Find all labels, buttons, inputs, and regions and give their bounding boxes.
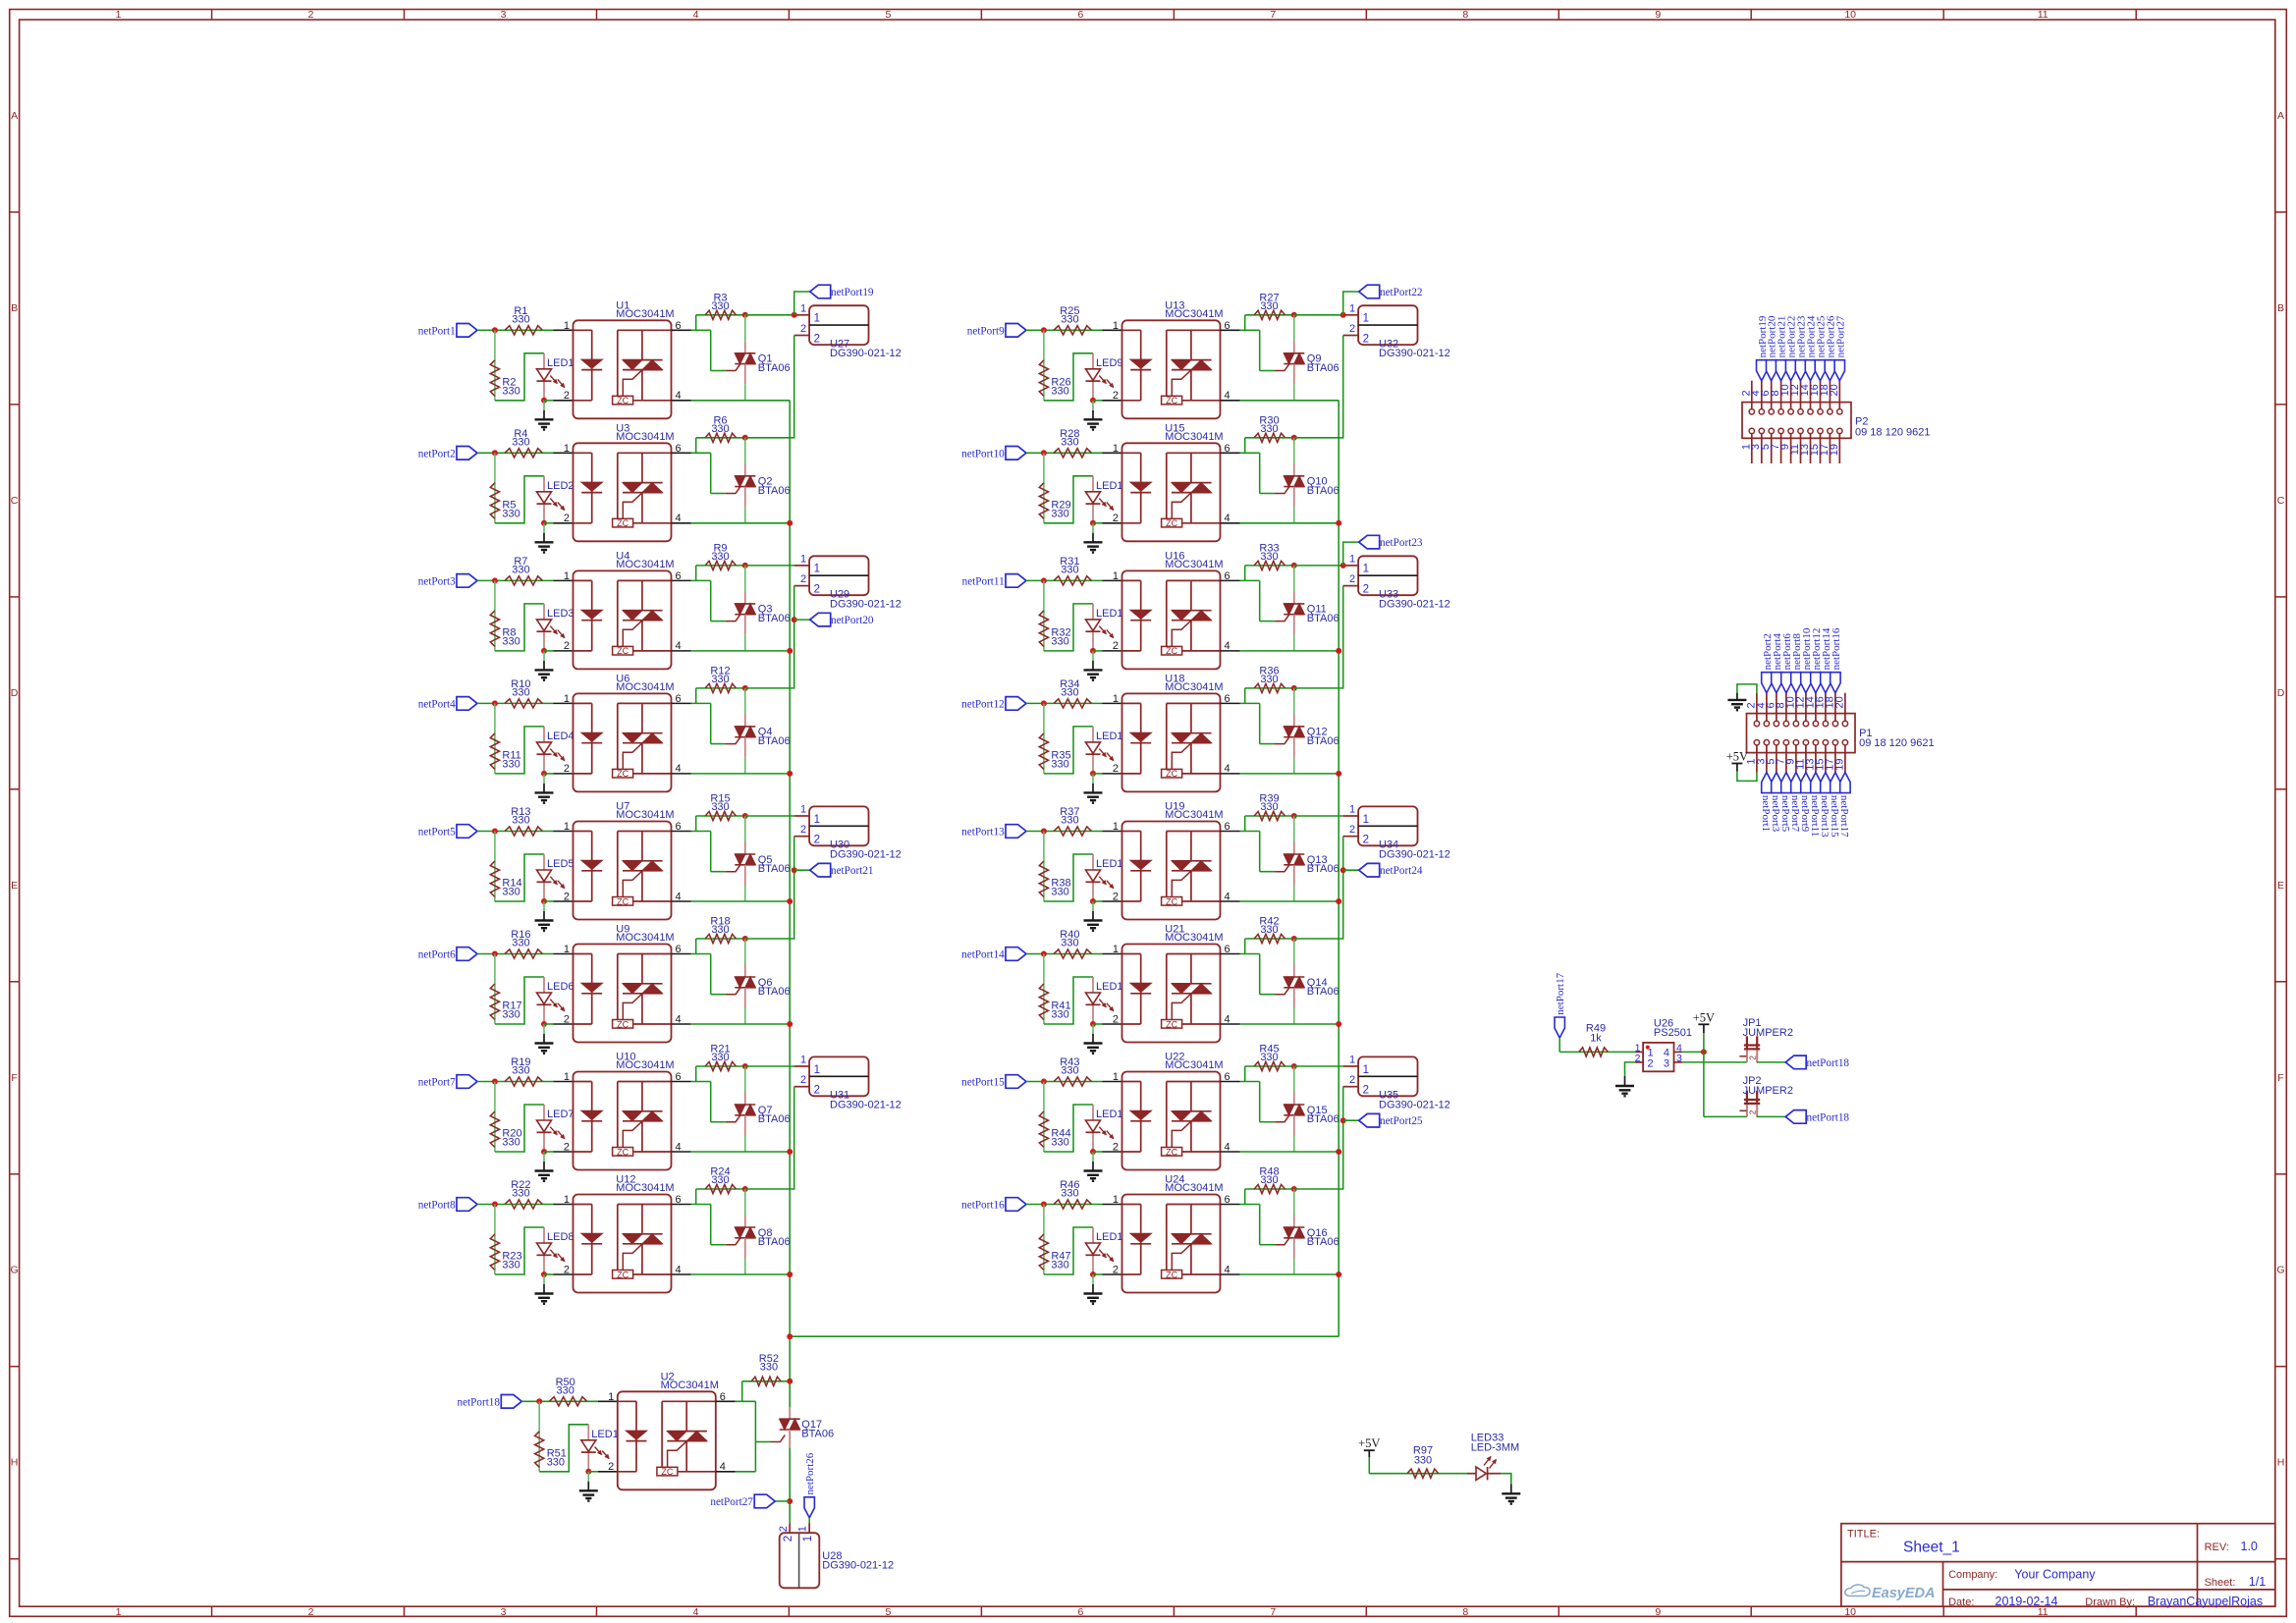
svg-text:LED6: LED6: [547, 981, 574, 993]
svg-text:netPort18: netPort18: [457, 1396, 500, 1408]
svg-text:netPort5: netPort5: [418, 827, 456, 839]
svg-text:Date:: Date:: [1948, 1596, 1974, 1608]
svg-text:D: D: [11, 687, 19, 699]
svg-text:1: 1: [564, 443, 570, 455]
svg-text:DG390-021-12: DG390-021-12: [1379, 848, 1450, 860]
svg-text:1: 1: [1113, 944, 1119, 955]
svg-text:2: 2: [1363, 333, 1369, 345]
svg-text:netPort16: netPort16: [961, 1200, 1005, 1212]
svg-text:LED9: LED9: [1096, 357, 1123, 369]
svg-text:330: 330: [1260, 300, 1278, 312]
svg-text:6: 6: [1225, 1194, 1230, 1206]
svg-text:330: 330: [1414, 1454, 1432, 1466]
svg-text:MOC3041M: MOC3041M: [1165, 809, 1223, 821]
svg-text:9: 9: [1655, 1606, 1661, 1618]
svg-text:6: 6: [676, 570, 682, 582]
svg-text:BTA06: BTA06: [1307, 735, 1339, 747]
svg-text:330: 330: [1260, 801, 1278, 813]
svg-text:330: 330: [1061, 1188, 1078, 1200]
svg-text:2: 2: [564, 640, 570, 652]
svg-text:2: 2: [564, 891, 570, 902]
svg-text:4: 4: [676, 390, 682, 402]
svg-text:2: 2: [1363, 583, 1369, 595]
svg-text:BTA06: BTA06: [1307, 986, 1339, 998]
svg-text:netPort11: netPort11: [962, 575, 1005, 587]
svg-text:DG390-021-12: DG390-021-12: [830, 848, 902, 860]
svg-text:netPort4: netPort4: [418, 698, 456, 710]
svg-text:330: 330: [711, 1174, 729, 1186]
svg-text:MOC3041M: MOC3041M: [616, 431, 674, 443]
svg-text:4: 4: [1225, 1013, 1230, 1025]
svg-text:E: E: [11, 880, 18, 892]
svg-text:DG390-021-12: DG390-021-12: [830, 1099, 902, 1110]
svg-text:2: 2: [564, 390, 570, 402]
svg-text:ZC: ZC: [1166, 646, 1177, 656]
svg-text:6: 6: [1225, 443, 1230, 455]
svg-text:1: 1: [1363, 1064, 1369, 1076]
svg-text:330: 330: [502, 635, 519, 647]
svg-text:MOC3041M: MOC3041M: [1165, 681, 1223, 693]
svg-text:1/1: 1/1: [2249, 1575, 2266, 1589]
svg-text:2: 2: [1363, 835, 1369, 846]
svg-text:ZC: ZC: [1166, 1019, 1177, 1029]
svg-text:LED8: LED8: [547, 1231, 574, 1243]
svg-text:330: 330: [512, 1065, 529, 1077]
svg-text:BTA06: BTA06: [1307, 362, 1339, 374]
svg-text:netPort25: netPort25: [1380, 1115, 1423, 1127]
svg-text:EasyEDA: EasyEDA: [1872, 1586, 1935, 1601]
svg-text:6: 6: [1077, 9, 1083, 21]
svg-text:2: 2: [800, 1074, 806, 1086]
svg-text:PS2501: PS2501: [1654, 1027, 1692, 1039]
svg-text:2: 2: [564, 1013, 570, 1025]
svg-text:11: 11: [2038, 9, 2049, 21]
svg-text:330: 330: [1051, 508, 1068, 519]
svg-text:MOC3041M: MOC3041M: [1165, 932, 1223, 944]
svg-text:F: F: [2277, 1072, 2283, 1084]
svg-text:4: 4: [676, 1264, 682, 1275]
svg-text:netPort3: netPort3: [418, 575, 456, 587]
svg-text:4: 4: [676, 1141, 682, 1153]
svg-text:2: 2: [814, 835, 820, 846]
svg-text:19: 19: [1829, 444, 1840, 456]
svg-text:330: 330: [502, 1137, 519, 1149]
svg-text:330: 330: [512, 565, 529, 576]
svg-text:BTA06: BTA06: [1307, 485, 1339, 497]
svg-text:4: 4: [720, 1461, 726, 1473]
svg-text:BTA06: BTA06: [1307, 863, 1339, 875]
svg-text:ZC: ZC: [617, 646, 629, 656]
svg-text:330: 330: [1061, 687, 1078, 699]
svg-text:BTA06: BTA06: [758, 1113, 791, 1125]
svg-text:6: 6: [1077, 1606, 1083, 1618]
svg-text:netPort21: netPort21: [831, 865, 874, 877]
svg-text:MOC3041M: MOC3041M: [616, 1059, 674, 1071]
svg-text:A: A: [2277, 110, 2284, 122]
svg-text:netPort23: netPort23: [1380, 537, 1423, 549]
svg-text:330: 330: [557, 1384, 574, 1396]
svg-text:netPort2: netPort2: [418, 448, 456, 460]
svg-text:netPort18: netPort18: [1807, 1057, 1850, 1069]
svg-text:1: 1: [1113, 320, 1119, 332]
svg-text:netPort8: netPort8: [418, 1200, 456, 1212]
svg-text:C: C: [2277, 495, 2285, 507]
svg-text:7: 7: [1270, 1606, 1276, 1618]
svg-text:BrayanCayupelRojas: BrayanCayupelRojas: [2148, 1595, 2263, 1608]
svg-text:1: 1: [1349, 1055, 1355, 1066]
svg-text:330: 330: [512, 938, 529, 949]
svg-text:netPort17: netPort17: [1838, 795, 1850, 838]
svg-text:2: 2: [308, 1606, 314, 1618]
svg-text:2: 2: [1363, 1085, 1369, 1097]
svg-text:1: 1: [802, 1536, 814, 1542]
svg-text:BTA06: BTA06: [758, 485, 791, 497]
svg-text:6: 6: [676, 693, 682, 705]
svg-text:330: 330: [502, 385, 519, 397]
svg-text:3: 3: [1664, 1057, 1669, 1069]
svg-text:LED3: LED3: [547, 608, 574, 620]
svg-text:LED5: LED5: [547, 858, 574, 870]
svg-text:netPort1: netPort1: [418, 325, 456, 337]
svg-text:G: G: [2276, 1265, 2284, 1276]
svg-text:DG390-021-12: DG390-021-12: [830, 348, 902, 359]
svg-text:1: 1: [800, 1055, 806, 1066]
svg-text:ZC: ZC: [661, 1467, 673, 1477]
svg-text:330: 330: [512, 436, 529, 448]
svg-text:2: 2: [1113, 1264, 1119, 1275]
svg-text:netPort15: netPort15: [961, 1077, 1005, 1089]
svg-text:+5V: +5V: [1358, 1436, 1380, 1450]
svg-text:5: 5: [885, 9, 891, 21]
svg-text:1: 1: [797, 1526, 809, 1532]
svg-text:ZC: ZC: [1166, 1270, 1177, 1279]
svg-text:2: 2: [1748, 1109, 1758, 1114]
svg-text:B: B: [11, 302, 18, 314]
svg-text:6: 6: [1225, 944, 1230, 955]
svg-text:2: 2: [1648, 1057, 1654, 1069]
svg-text:330: 330: [512, 815, 529, 827]
svg-text:netPort27: netPort27: [1834, 315, 1846, 357]
svg-text:6: 6: [676, 944, 682, 955]
svg-text:1: 1: [814, 1064, 820, 1076]
svg-text:330: 330: [711, 924, 729, 936]
svg-text:MOC3041M: MOC3041M: [1165, 1059, 1223, 1071]
svg-text:+5V: +5V: [1693, 1010, 1715, 1024]
svg-text:MOC3041M: MOC3041M: [1165, 308, 1223, 320]
svg-text:MOC3041M: MOC3041M: [1165, 431, 1223, 443]
svg-text:2: 2: [1349, 824, 1355, 836]
svg-text:2: 2: [564, 763, 570, 775]
svg-text:MOC3041M: MOC3041M: [616, 809, 674, 821]
svg-text:netPort24: netPort24: [1380, 865, 1423, 877]
svg-text:2: 2: [1635, 1053, 1641, 1064]
svg-text:1k: 1k: [1590, 1033, 1602, 1045]
svg-text:330: 330: [1051, 385, 1068, 397]
svg-text:netPort26: netPort26: [804, 1452, 816, 1494]
svg-text:9: 9: [1655, 9, 1661, 21]
svg-text:BTA06: BTA06: [758, 613, 791, 624]
svg-text:MOC3041M: MOC3041M: [616, 308, 674, 320]
svg-text:330: 330: [1260, 423, 1278, 435]
svg-text:BTA06: BTA06: [758, 986, 791, 998]
svg-text:330: 330: [711, 1052, 729, 1063]
svg-text:3: 3: [1676, 1053, 1682, 1064]
svg-text:2: 2: [1113, 390, 1119, 402]
svg-text:Sheet:: Sheet:: [2205, 1577, 2236, 1589]
svg-text:1: 1: [814, 814, 820, 826]
svg-text:1: 1: [800, 553, 806, 565]
svg-text:330: 330: [711, 300, 729, 312]
svg-text:ZC: ZC: [617, 396, 629, 406]
svg-text:2: 2: [800, 573, 806, 585]
svg-text:5: 5: [885, 1606, 891, 1618]
svg-text:6: 6: [1225, 693, 1230, 705]
svg-text:BTA06: BTA06: [1307, 613, 1339, 624]
svg-text:1: 1: [814, 313, 820, 325]
svg-text:DG390-021-12: DG390-021-12: [1379, 598, 1450, 610]
svg-text:C: C: [11, 495, 19, 507]
svg-text:LED7: LED7: [547, 1109, 574, 1120]
svg-text:LED-3MM: LED-3MM: [1471, 1442, 1520, 1454]
svg-text:MOC3041M: MOC3041M: [1165, 1182, 1223, 1194]
svg-text:330: 330: [502, 758, 519, 770]
svg-text:ZC: ZC: [617, 518, 629, 528]
svg-text:2: 2: [608, 1461, 614, 1473]
svg-text:330: 330: [1061, 938, 1078, 949]
svg-text:2: 2: [564, 513, 570, 524]
svg-text:2: 2: [1113, 763, 1119, 775]
svg-text:2: 2: [564, 1264, 570, 1275]
svg-text:E: E: [2277, 880, 2284, 892]
svg-text:netPort19: netPort19: [831, 287, 874, 298]
svg-text:BTA06: BTA06: [758, 1236, 791, 1248]
svg-text:330: 330: [711, 551, 729, 563]
svg-text:2: 2: [1113, 891, 1119, 902]
svg-text:MOC3041M: MOC3041M: [661, 1380, 719, 1391]
svg-text:4: 4: [676, 1013, 682, 1025]
svg-text:H: H: [2277, 1457, 2285, 1469]
svg-text:330: 330: [1051, 887, 1068, 898]
svg-text:330: 330: [512, 1188, 529, 1200]
svg-text:1: 1: [564, 693, 570, 705]
svg-text:2: 2: [1113, 640, 1119, 652]
svg-text:Drawn By:: Drawn By:: [2085, 1596, 2135, 1608]
svg-text:1: 1: [814, 564, 820, 575]
svg-text:330: 330: [1061, 313, 1078, 325]
svg-text:1: 1: [1349, 553, 1355, 565]
svg-text:netPort10: netPort10: [961, 448, 1005, 460]
svg-text:330: 330: [1051, 1137, 1068, 1149]
svg-text:Company:: Company:: [1948, 1569, 1997, 1581]
svg-text:4: 4: [1225, 891, 1230, 902]
svg-text:B: B: [2277, 302, 2284, 314]
svg-text:TITLE:: TITLE:: [1847, 1528, 1880, 1540]
svg-text:netPort20: netPort20: [831, 615, 874, 626]
svg-text:4: 4: [676, 891, 682, 902]
svg-text:4: 4: [1225, 763, 1230, 775]
svg-text:netPort18: netPort18: [1807, 1111, 1850, 1123]
svg-text:2: 2: [783, 1536, 794, 1542]
svg-text:BTA06: BTA06: [758, 735, 791, 747]
svg-text:8: 8: [1462, 9, 1468, 21]
svg-text:1: 1: [1363, 814, 1369, 826]
svg-text:2: 2: [814, 583, 820, 595]
svg-text:ZC: ZC: [617, 769, 629, 779]
svg-text:6: 6: [676, 320, 682, 332]
svg-text:H: H: [11, 1457, 19, 1469]
svg-text:1: 1: [116, 1606, 122, 1618]
svg-text:1: 1: [1113, 443, 1119, 455]
svg-text:4: 4: [676, 640, 682, 652]
svg-text:330: 330: [502, 508, 519, 519]
svg-text:330: 330: [502, 1009, 519, 1021]
svg-text:MOC3041M: MOC3041M: [616, 559, 674, 570]
svg-text:3: 3: [501, 9, 507, 21]
svg-text:330: 330: [512, 313, 529, 325]
svg-text:330: 330: [1260, 924, 1278, 936]
svg-text:4: 4: [1225, 513, 1230, 524]
svg-text:netPort9: netPort9: [967, 325, 1005, 337]
svg-text:330: 330: [760, 1362, 778, 1374]
svg-text:A: A: [11, 110, 18, 122]
svg-text:netPort27: netPort27: [710, 1496, 753, 1508]
svg-text:4: 4: [1225, 1141, 1230, 1153]
svg-text:330: 330: [502, 1260, 519, 1271]
svg-text:G: G: [11, 1265, 19, 1276]
svg-text:BTA06: BTA06: [1307, 1236, 1339, 1248]
svg-text:330: 330: [1260, 1052, 1278, 1063]
svg-text:330: 330: [512, 687, 529, 699]
svg-text:1: 1: [1113, 1071, 1119, 1083]
svg-text:19: 19: [1833, 759, 1845, 771]
svg-text:D: D: [2277, 687, 2285, 699]
svg-text:1: 1: [1113, 1194, 1119, 1206]
svg-text:netPort22: netPort22: [1380, 287, 1423, 298]
svg-text:netPort12: netPort12: [961, 698, 1005, 710]
svg-text:1: 1: [800, 804, 806, 816]
svg-text:1: 1: [1363, 564, 1369, 575]
svg-text:4: 4: [693, 9, 699, 21]
svg-text:330: 330: [1061, 1065, 1078, 1077]
svg-text:1: 1: [800, 302, 806, 314]
svg-text:F: F: [11, 1072, 17, 1084]
svg-text:6: 6: [676, 1194, 682, 1206]
svg-text:DG390-021-12: DG390-021-12: [822, 1560, 894, 1572]
svg-text:1: 1: [1349, 804, 1355, 816]
svg-text:330: 330: [1061, 815, 1078, 827]
svg-text:1: 1: [1349, 302, 1355, 314]
svg-text:330: 330: [547, 1456, 565, 1468]
svg-text:MOC3041M: MOC3041M: [616, 1182, 674, 1194]
svg-text:2: 2: [800, 323, 806, 335]
svg-text:330: 330: [1260, 674, 1278, 685]
svg-text:1: 1: [564, 1071, 570, 1083]
svg-text:330: 330: [1051, 1260, 1068, 1271]
svg-text:1: 1: [564, 944, 570, 955]
svg-text:10: 10: [1844, 9, 1856, 21]
svg-text:ZC: ZC: [1166, 518, 1177, 528]
svg-text:2: 2: [1349, 573, 1355, 585]
svg-text:ZC: ZC: [1166, 896, 1177, 906]
svg-text:330: 330: [711, 423, 729, 435]
svg-text:2: 2: [1349, 323, 1355, 335]
svg-text:ZC: ZC: [617, 1019, 629, 1029]
svg-text:LED4: LED4: [547, 730, 574, 742]
svg-text:09 18 120 9621: 09 18 120 9621: [1855, 427, 1930, 439]
svg-text:330: 330: [711, 674, 729, 685]
svg-text:+5V: +5V: [1726, 750, 1748, 764]
svg-text:6: 6: [720, 1391, 726, 1403]
svg-text:DG390-021-12: DG390-021-12: [1379, 348, 1450, 359]
svg-text:330: 330: [502, 887, 519, 898]
svg-text:netPort14: netPort14: [961, 949, 1005, 961]
svg-text:330: 330: [1061, 436, 1078, 448]
svg-text:2: 2: [800, 824, 806, 836]
svg-text:BTA06: BTA06: [758, 362, 791, 374]
svg-text:1: 1: [1363, 313, 1369, 325]
svg-text:DG390-021-12: DG390-021-12: [1379, 1099, 1450, 1110]
svg-text:netPort7: netPort7: [418, 1077, 456, 1089]
svg-text:4: 4: [1225, 1264, 1230, 1275]
svg-text:330: 330: [1260, 551, 1278, 563]
svg-text:2: 2: [1113, 513, 1119, 524]
svg-text:7: 7: [1270, 9, 1276, 21]
svg-text:netPort17: netPort17: [1555, 972, 1566, 1014]
svg-text:2: 2: [308, 9, 314, 21]
svg-text:330: 330: [1051, 635, 1068, 647]
svg-text:6: 6: [676, 443, 682, 455]
svg-text:2019-02-14: 2019-02-14: [1995, 1595, 2058, 1608]
svg-text:330: 330: [1260, 1174, 1278, 1186]
svg-text:4: 4: [1225, 640, 1230, 652]
svg-text:2: 2: [778, 1526, 790, 1532]
svg-text:2: 2: [1113, 1013, 1119, 1025]
svg-text:MOC3041M: MOC3041M: [616, 932, 674, 944]
svg-text:6: 6: [676, 1071, 682, 1083]
svg-text:2: 2: [564, 1141, 570, 1153]
svg-text:330: 330: [711, 801, 729, 813]
svg-text:1: 1: [116, 9, 122, 21]
svg-text:Your Company: Your Company: [2014, 1568, 2096, 1582]
svg-text:20: 20: [1833, 696, 1845, 708]
svg-text:ZC: ZC: [1166, 1147, 1177, 1157]
svg-text:2: 2: [1748, 1055, 1758, 1060]
svg-text:DG390-021-12: DG390-021-12: [830, 598, 902, 610]
svg-text:1: 1: [1113, 693, 1119, 705]
svg-text:3: 3: [501, 1606, 507, 1618]
svg-text:netPort6: netPort6: [418, 949, 456, 961]
svg-text:330: 330: [1051, 1009, 1068, 1021]
svg-text:1: 1: [608, 1391, 614, 1403]
svg-text:netPort16: netPort16: [1831, 627, 1842, 670]
svg-text:1: 1: [564, 320, 570, 332]
svg-text:ZC: ZC: [617, 1270, 629, 1279]
svg-text:10: 10: [1844, 1606, 1856, 1618]
svg-text:1: 1: [564, 1194, 570, 1206]
svg-text:JUMPER2: JUMPER2: [1743, 1085, 1793, 1097]
svg-text:1.0: 1.0: [2241, 1540, 2258, 1553]
svg-text:1: 1: [1113, 570, 1119, 582]
svg-text:MOC3041M: MOC3041M: [1165, 559, 1223, 570]
svg-text:4: 4: [676, 763, 682, 775]
svg-text:ZC: ZC: [617, 896, 629, 906]
svg-text:330: 330: [1061, 565, 1078, 576]
svg-text:MOC3041M: MOC3041M: [616, 681, 674, 693]
svg-text:4: 4: [676, 513, 682, 524]
svg-text:6: 6: [1225, 320, 1230, 332]
svg-text:ZC: ZC: [1166, 396, 1177, 406]
svg-text:LED2: LED2: [547, 480, 574, 492]
